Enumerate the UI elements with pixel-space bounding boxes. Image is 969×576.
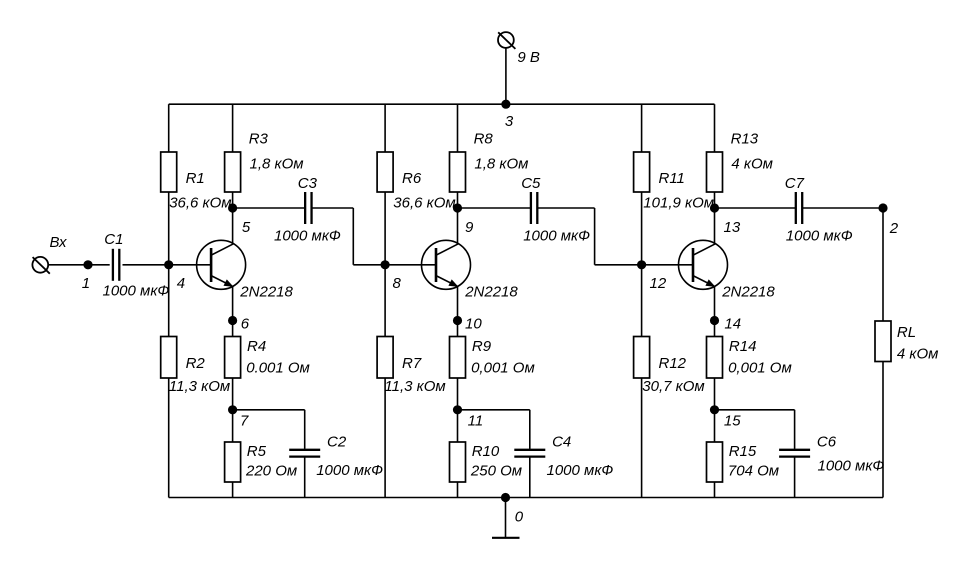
label R9 value: [471, 360, 535, 377]
wire node 10 to R9: [457, 321, 459, 337]
label node 6: [241, 315, 250, 332]
label node 12: [650, 275, 667, 292]
resistor R11: [634, 152, 650, 192]
node 12: [637, 260, 646, 269]
svg-text:R1: R1: [186, 170, 205, 187]
svg-text:C6: C6: [817, 434, 837, 451]
resistor R12: [634, 337, 650, 379]
label Q1 2N2218: [239, 284, 293, 301]
wire C2 to ground rail: [304, 457, 306, 498]
label C4: [552, 434, 571, 451]
label R3 value: [250, 155, 304, 172]
wire top supply rail: [169, 103, 715, 105]
label R15: [729, 443, 757, 460]
transistor Q1 2N2218: [197, 240, 246, 289]
wire R9 to node 11: [457, 378, 459, 410]
svg-text:2N2218: 2N2218: [239, 284, 293, 301]
wire node 7 to C2: [233, 410, 305, 449]
wire RL to ground rail: [882, 362, 884, 498]
label R13 value: [731, 155, 773, 172]
label R7 value: [384, 378, 445, 395]
label RL value: [897, 346, 939, 363]
label R14: [729, 338, 757, 355]
svg-text:Вх: Вх: [50, 234, 68, 251]
wire rail to R11: [641, 104, 643, 152]
label node 15: [724, 412, 741, 429]
label R9: [472, 338, 492, 355]
label R6: [402, 170, 422, 187]
label node 7: [240, 412, 249, 429]
wire node 2 to RL: [882, 208, 884, 321]
node 8: [381, 260, 390, 269]
svg-text:8: 8: [393, 275, 402, 292]
wire node 11 to C4: [458, 410, 530, 449]
label R10: [472, 443, 500, 460]
wire collector: [714, 208, 716, 244]
svg-text:R9: R9: [472, 338, 492, 355]
capacitor C6: [779, 450, 810, 457]
svg-text:704 Ом: 704 Ом: [728, 463, 779, 480]
svg-text:11,3 кОм: 11,3 кОм: [169, 378, 230, 395]
label R4: [247, 338, 266, 355]
resistor R6: [377, 152, 393, 192]
svg-text:30,7 кОм: 30,7 кОм: [642, 378, 704, 395]
svg-text:R5: R5: [247, 443, 267, 460]
wire R10 to ground rail: [457, 482, 459, 498]
svg-text:250 Ом: 250 Ом: [470, 463, 522, 480]
svg-text:1000 мкФ: 1000 мкФ: [523, 227, 590, 244]
svg-text:1,8 кОм: 1,8 кОм: [250, 155, 304, 172]
label C5 value: [523, 227, 590, 244]
svg-text:36,6 кОм: 36,6 кОм: [169, 195, 231, 212]
wire R15 to ground rail: [714, 482, 716, 498]
transistor Q2 2N2218: [422, 240, 471, 289]
resistor R7: [377, 337, 393, 379]
label C2: [327, 434, 347, 451]
label R8: [474, 131, 494, 148]
label R11: [659, 170, 685, 187]
label R4 value: [246, 360, 310, 377]
svg-text:R8: R8: [474, 131, 494, 148]
svg-text:C4: C4: [552, 434, 571, 451]
label R1: [186, 170, 205, 187]
svg-text:C5: C5: [521, 175, 541, 192]
svg-text:9: 9: [465, 219, 474, 236]
wire R7 to ground rail: [384, 378, 386, 498]
resistor RL: [875, 321, 891, 362]
capacitor C7: [796, 192, 802, 224]
label node 0: [515, 509, 524, 526]
svg-text:0,001 Ом: 0,001 Ом: [471, 360, 535, 377]
wire emitter: [714, 287, 716, 321]
label node 14: [724, 315, 741, 332]
label Q2 2N2218: [464, 284, 518, 301]
svg-text:RL: RL: [897, 324, 916, 341]
resistor R4: [225, 337, 241, 379]
svg-text:5: 5: [242, 219, 251, 236]
label R3: [249, 131, 269, 148]
svg-text:2N2218: 2N2218: [721, 284, 775, 301]
capacitor C3: [305, 192, 311, 224]
wire node 4 to R2: [168, 265, 170, 337]
svg-text:101,9 кОм: 101,9 кОм: [643, 195, 714, 212]
label node 2: [889, 220, 899, 237]
svg-text:R13: R13: [731, 131, 759, 148]
wire R8 to node 9: [457, 192, 459, 208]
wire R13 to node 13: [714, 192, 716, 208]
wire node 8 to R7: [384, 265, 386, 337]
label R12 value: [642, 378, 704, 395]
wire R6 to base node 8: [384, 192, 386, 265]
wire R11 to base node 12: [641, 192, 643, 265]
svg-text:C2: C2: [327, 434, 347, 451]
node 5: [228, 203, 237, 212]
svg-text:13: 13: [724, 219, 741, 236]
wire 9V stem: [505, 48, 507, 104]
label node 10: [465, 315, 482, 332]
label C4 value: [547, 462, 614, 479]
label R14 value: [728, 360, 792, 377]
label 9 V: [517, 49, 540, 66]
svg-text:1000 мкФ: 1000 мкФ: [316, 462, 383, 479]
label RL: [897, 324, 916, 341]
wire node 7 to R5: [232, 410, 234, 442]
wire node 12 to R12: [641, 265, 643, 337]
wire node 15 to C6: [715, 410, 795, 449]
svg-text:9 В: 9 В: [517, 49, 540, 66]
svg-text:R11: R11: [659, 170, 685, 187]
wire R14 to node 15: [714, 378, 716, 410]
node 11: [453, 405, 462, 414]
label C7: [785, 175, 805, 192]
label R6 value: [393, 195, 455, 212]
resistor R2: [161, 337, 177, 379]
resistor R8: [450, 152, 466, 192]
svg-text:C1: C1: [104, 231, 123, 248]
wire node 14 to R14: [714, 321, 716, 337]
label C3: [298, 175, 318, 192]
label C2 value: [316, 462, 383, 479]
label R5 value: [245, 463, 297, 480]
node 9: [453, 203, 462, 212]
wire rail to R1: [168, 104, 170, 152]
wire base node 8 to Q2: [385, 264, 436, 266]
svg-text:0,001 Ом: 0,001 Ом: [728, 360, 792, 377]
svg-text:11: 11: [468, 412, 484, 429]
svg-text:10: 10: [465, 315, 482, 332]
svg-text:6: 6: [241, 315, 250, 332]
wire C3 jog to next stage: [312, 208, 386, 265]
label node 4: [177, 275, 185, 292]
wire rail to R13: [714, 104, 716, 152]
wire bottom ground rail: [169, 497, 883, 499]
wire C1 to node 4: [123, 264, 169, 266]
svg-text:1000 мкФ: 1000 мкФ: [786, 227, 853, 244]
svg-text:2N2218: 2N2218: [464, 284, 518, 301]
wire node 6 to R4: [232, 321, 234, 337]
resistor R1: [161, 152, 177, 192]
wire R4 to node 7: [232, 378, 234, 410]
label C3 value: [274, 227, 341, 244]
node 0: [501, 493, 510, 502]
label R2: [186, 355, 206, 372]
svg-text:12: 12: [650, 275, 667, 292]
svg-text:36,6 кОм: 36,6 кОм: [393, 195, 455, 212]
label node 3: [505, 113, 514, 130]
resistor R13: [707, 152, 723, 192]
wire node 15 to R15: [714, 410, 716, 442]
label C1: [104, 231, 123, 248]
label R1 value: [169, 195, 231, 212]
wire C7 to node 2: [802, 207, 883, 209]
label node 8: [393, 275, 402, 292]
wire node 11 to R10: [457, 410, 459, 442]
svg-text:0: 0: [515, 509, 524, 526]
resistor R9: [450, 337, 466, 379]
svg-text:14: 14: [724, 315, 741, 332]
node 10: [453, 316, 462, 325]
label C7 value: [786, 227, 853, 244]
label R10 value: [470, 463, 522, 480]
label C5: [521, 175, 541, 192]
transistor Q3 2N2218: [679, 240, 728, 289]
node 1: [83, 260, 92, 269]
label Bx: [50, 234, 68, 251]
label node 5: [242, 219, 251, 236]
node 15: [710, 405, 719, 414]
svg-text:R3: R3: [249, 131, 269, 148]
wire R5 to ground rail: [232, 482, 234, 498]
node 7: [228, 405, 237, 414]
wire C5 jog to next stage: [537, 208, 641, 265]
capacitor C1: [113, 249, 119, 281]
svg-text:4 кОм: 4 кОм: [897, 346, 939, 363]
svg-text:C7: C7: [785, 175, 805, 192]
node 3: [501, 100, 510, 109]
wire C6 to ground rail: [794, 457, 796, 498]
node 2: [878, 203, 887, 212]
svg-text:C3: C3: [298, 175, 318, 192]
svg-text:0.001 Ом: 0.001 Ом: [246, 360, 310, 377]
wire node 5 to C3: [233, 207, 306, 209]
svg-text:2: 2: [889, 220, 899, 237]
wire base node 4 to Q1: [169, 264, 211, 266]
svg-text:1,8 кОм: 1,8 кОм: [474, 155, 528, 172]
svg-text:4 кОм: 4 кОм: [731, 155, 773, 172]
label node 1: [82, 275, 90, 292]
label R11 value: [643, 195, 714, 212]
label node 11: [468, 412, 484, 429]
wire R3 to node 5: [232, 192, 234, 208]
svg-text:11,3 кОм: 11,3 кОм: [384, 378, 445, 395]
svg-text:1000 мкФ: 1000 мкФ: [818, 458, 885, 475]
node 13: [710, 203, 719, 212]
wire rail to R8: [457, 104, 459, 152]
svg-text:220 Ом: 220 Ом: [245, 463, 297, 480]
svg-text:4: 4: [177, 275, 185, 292]
resistor R10: [450, 442, 466, 482]
svg-text:1000 мкФ: 1000 мкФ: [274, 227, 341, 244]
label node 13: [724, 219, 741, 236]
input terminal Bx: [32, 257, 49, 274]
wire node 13 to C7: [715, 207, 796, 209]
power terminal 9V: [498, 32, 515, 49]
wire collector: [232, 208, 234, 244]
svg-text:R15: R15: [729, 443, 757, 460]
label Q3 2N2218: [721, 284, 775, 301]
wire input to C1: [48, 264, 109, 266]
svg-text:1000 мкФ: 1000 мкФ: [547, 462, 614, 479]
wire emitter: [457, 287, 459, 321]
svg-text:R14: R14: [729, 338, 757, 355]
svg-text:R12: R12: [659, 355, 687, 372]
node 6: [228, 316, 237, 325]
capacitor C5: [531, 192, 537, 224]
node 4: [164, 260, 173, 269]
wire base node 12 to Q3: [642, 264, 693, 266]
resistor R5: [225, 442, 241, 482]
svg-text:R4: R4: [247, 338, 266, 355]
resistor R3: [225, 152, 241, 192]
svg-text:1000 мкФ: 1000 мкФ: [103, 283, 170, 300]
node 14: [710, 316, 719, 325]
wire R2 to ground rail: [168, 378, 170, 498]
capacitor C4: [514, 450, 545, 457]
svg-text:15: 15: [724, 412, 741, 429]
wire collector: [457, 208, 459, 244]
wire ground stem: [505, 498, 507, 538]
wire R12 to ground rail: [641, 378, 643, 498]
wire node 9 to C5: [458, 207, 531, 209]
wire rail to R6: [384, 104, 386, 152]
label C6 value: [818, 458, 885, 475]
ground: [492, 537, 520, 539]
svg-text:R2: R2: [186, 355, 206, 372]
label R13: [731, 131, 759, 148]
wire emitter: [232, 287, 234, 321]
svg-text:3: 3: [505, 113, 514, 130]
resistor R14: [707, 337, 723, 379]
label R8 value: [474, 155, 528, 172]
label R12: [659, 355, 687, 372]
svg-text:R10: R10: [472, 443, 500, 460]
label C1 value: [103, 283, 170, 300]
svg-text:R7: R7: [402, 355, 422, 372]
wire C4 to ground rail: [529, 457, 531, 498]
svg-text:7: 7: [240, 412, 249, 429]
label R7: [402, 355, 422, 372]
svg-text:R6: R6: [402, 170, 422, 187]
capacitor C2: [289, 450, 320, 457]
label R2 value: [169, 378, 230, 395]
label R15 value: [728, 463, 779, 480]
label R5: [247, 443, 267, 460]
resistor R15: [707, 442, 723, 482]
svg-text:1: 1: [82, 275, 90, 292]
label node 9: [465, 219, 474, 236]
label C6: [817, 434, 837, 451]
wire rail to R3: [232, 104, 234, 152]
wire R1 to base node 4: [168, 192, 170, 265]
